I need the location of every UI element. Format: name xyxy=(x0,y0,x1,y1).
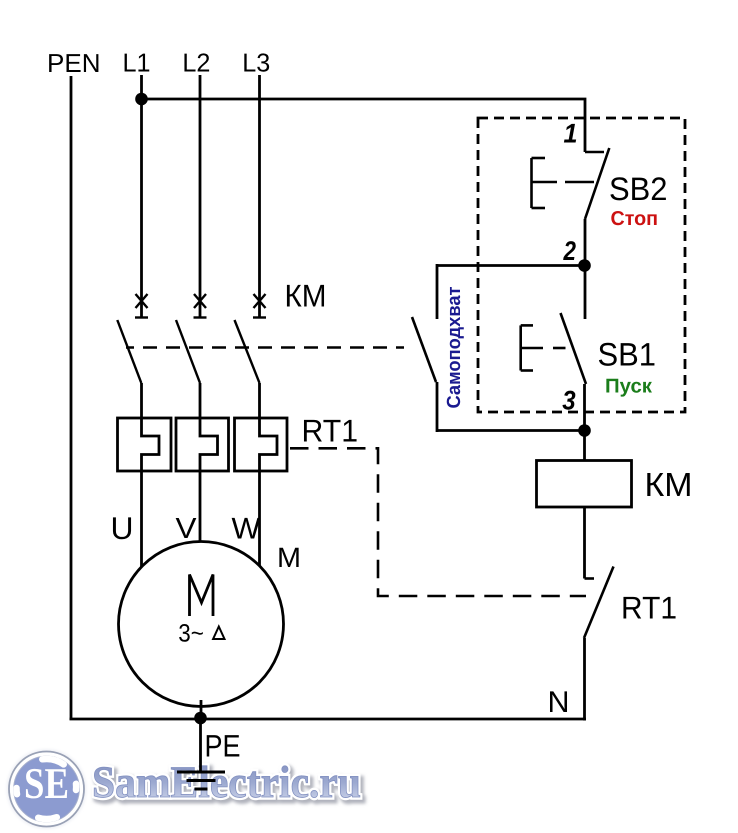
button SB2 stop contact (NC) xyxy=(585,148,609,219)
wire motor to bottom bus xyxy=(200,700,203,719)
wire L3 vertical xyxy=(258,75,261,317)
svg-text:L2: L2 xyxy=(182,48,210,78)
button SB2 actuator xyxy=(532,158,595,208)
motor M1 circle xyxy=(119,542,284,707)
contactor KM main contact pole 3 xyxy=(235,294,267,383)
wire self-latch left lower xyxy=(436,382,439,432)
wire U phase to motor xyxy=(140,471,143,567)
svg-text:Самоподхват: Самоподхват xyxy=(444,287,465,409)
svg-text:V: V xyxy=(176,513,198,545)
svg-text:КМ: КМ xyxy=(285,278,327,314)
motor delta symbol xyxy=(213,627,224,640)
svg-text:N: N xyxy=(548,686,570,719)
ground symbol xyxy=(177,772,225,789)
node junction L1 / control feed xyxy=(135,93,148,106)
wire pole3 to heater3 xyxy=(258,383,261,418)
wire SB2 to node 2 xyxy=(584,219,587,266)
svg-text:RT1: RT1 xyxy=(302,413,359,449)
motor M glyph xyxy=(190,575,214,617)
wire self-latch bottom xyxy=(437,429,585,432)
contactor KM auxiliary contact (self-latch) xyxy=(412,317,436,382)
wire coil to RT1 contact xyxy=(583,507,586,579)
svg-text:PEN: PEN xyxy=(47,48,101,78)
svg-text:Стоп: Стоп xyxy=(611,208,659,230)
wire PE xyxy=(199,719,202,772)
svg-text:КМ: КМ xyxy=(645,467,693,504)
svg-text:3: 3 xyxy=(562,386,575,416)
wire L1 vertical xyxy=(140,75,143,317)
thermal relay RT1 heater 1 xyxy=(118,418,172,471)
contactor KM main contact pole 1 xyxy=(117,294,148,383)
svg-text:PE: PE xyxy=(205,729,241,764)
wire node 2 to SB1 xyxy=(584,266,587,320)
wire L2 vertical xyxy=(199,75,202,317)
svg-text:2: 2 xyxy=(563,236,576,266)
dashed enclosure of push-button station xyxy=(478,118,685,412)
contactor KM main contact pole 2 xyxy=(176,294,207,383)
relay RT1 NC contact xyxy=(584,567,614,639)
svg-text:Пуск: Пуск xyxy=(605,375,653,397)
svg-text:L3: L3 xyxy=(242,48,270,78)
watermark text SamElectric.ru xyxy=(92,757,364,810)
mechanical link dashed of contactor KM xyxy=(126,346,404,349)
wire self-latch left upper xyxy=(436,264,439,319)
dashed link RT1 heaters to RT1 contact xyxy=(290,448,586,596)
thermal relay RT1 heater 2 xyxy=(176,418,229,471)
wire control feed to SB2 xyxy=(142,99,586,152)
wire RT1 contact to N bus xyxy=(583,638,586,721)
wire SB1 to node 3 xyxy=(583,384,586,461)
svg-text:U: U xyxy=(111,510,134,546)
node junction motor / PE xyxy=(194,712,207,725)
svg-text:1: 1 xyxy=(564,118,578,148)
wire self-latch top xyxy=(437,264,585,267)
svg-text:3~: 3~ xyxy=(178,620,204,648)
wire PEN vertical xyxy=(70,76,73,719)
svg-text:SB2: SB2 xyxy=(609,171,668,207)
svg-text:SB1: SB1 xyxy=(598,337,657,373)
button SB1 start contact (NO) xyxy=(561,313,587,384)
wire V phase to motor xyxy=(199,471,202,542)
wire pole2 to heater2 xyxy=(199,383,202,418)
wire W phase to motor xyxy=(258,471,261,566)
node 3 xyxy=(578,424,591,437)
thermal relay RT1 heater 3 xyxy=(235,418,288,471)
wire pole1 to heater1 xyxy=(140,383,143,418)
coil KM xyxy=(537,461,632,508)
svg-text:SamElectric.ru: SamElectric.ru xyxy=(92,757,361,807)
svg-text:L1: L1 xyxy=(123,48,151,78)
button SB1 actuator xyxy=(521,325,566,370)
svg-text:W: W xyxy=(232,513,262,546)
wire bottom bus N/PEN xyxy=(70,718,587,721)
svg-text:RT1: RT1 xyxy=(621,590,677,626)
svg-text:SE: SE xyxy=(24,759,69,808)
watermark logo SE xyxy=(7,750,86,829)
svg-text:M: M xyxy=(277,542,301,573)
node 2 xyxy=(578,259,591,272)
